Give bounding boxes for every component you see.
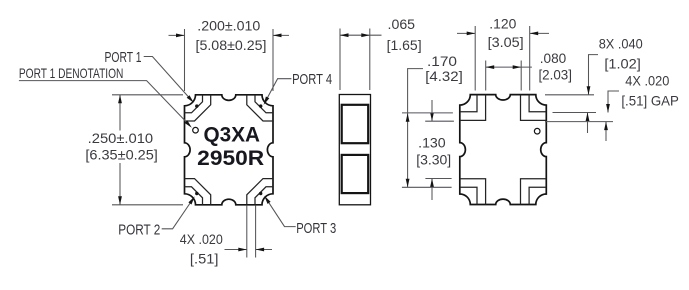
dimension .120 arrows: [457, 32, 549, 34]
svg-text:[6.35±0.25]: [6.35±0.25]: [85, 146, 158, 162]
side view lower metallization band: [342, 155, 369, 193]
svg-text:Q3XA: Q3XA: [204, 124, 261, 147]
dimension .130 arrows: [431, 100, 433, 200]
dimension .200 arrows: [169, 34, 290, 36]
svg-text:[2.03]: [2.03]: [538, 66, 572, 82]
svg-text:PORT 1: PORT 1: [105, 49, 142, 66]
extension line pad top outer (left): [425, 120, 454, 122]
right view top-right corner pad: [521, 95, 547, 121]
svg-text:[5.08±0.25]: [5.08±0.25]: [196, 37, 267, 53]
svg-text:.130: .130: [418, 135, 446, 151]
svg-text:[.51]: [.51]: [190, 250, 219, 266]
svg-text:PORT 4: PORT 4: [292, 71, 332, 88]
dimension 4X .020 arrows: [225, 249, 273, 251]
dimension .080 line with tail and arrows: [486, 66, 532, 68]
svg-text:PORT 3: PORT 3: [296, 220, 336, 237]
PORT 2 leader: [162, 199, 193, 229]
dimension .065 arrows and tail: [340, 34, 382, 36]
dimension .170 leader jog and line: [408, 69, 423, 188]
right view bottom-left corner pad: [460, 179, 486, 205]
svg-text:PORT 2: PORT 2: [118, 222, 160, 239]
svg-text:.200±.010: .200±.010: [197, 17, 260, 33]
port 1 denotation circle: [193, 127, 199, 133]
PORT 1 leader: [144, 57, 192, 101]
dimension 4X .020 GAP leader and arrows: [608, 91, 619, 113]
svg-text:[3.30]: [3.30]: [416, 151, 451, 167]
right view: package bottom-view outline: [460, 95, 547, 205]
svg-text:[.51] GAP: [.51] GAP: [621, 93, 679, 109]
svg-text:PORT 1 DENOTATION: PORT 1 DENOTATION: [19, 65, 124, 81]
svg-text:.120: .120: [489, 15, 516, 31]
extension lines right of right view: [545, 95, 613, 122]
svg-text:2950R: 2950R: [197, 147, 264, 170]
dimension .250 +/- .010 left height, extension lines: [112, 95, 183, 205]
dimension .065 extension lines: [340, 29, 370, 91]
dimension .200 +/- .010 top width, extension lines: [185, 29, 274, 91]
svg-text:[1.65]: [1.65]: [387, 37, 422, 53]
dimension .080 extension lines: [486, 61, 522, 91]
dimension .250 vertical line and arrows: [119, 95, 121, 205]
dimension 4X .020 bottom gap, extension lines: [247, 206, 256, 258]
svg-text:.170: .170: [427, 53, 457, 69]
left view bottom-left corner pad: [185, 179, 211, 205]
svg-text:.065: .065: [388, 16, 416, 32]
svg-text:[1.02]: [1.02]: [604, 55, 641, 71]
left view: package top-view outline: [185, 95, 274, 205]
right view port 1 denotation circle: [534, 128, 540, 134]
left view top-right corner pad: [247, 95, 273, 121]
svg-text:[3.05]: [3.05]: [488, 34, 524, 50]
side view upper metallization band: [342, 105, 369, 143]
PORT 3 leader: [266, 199, 296, 227]
left view bottom-right corner pad: [247, 179, 273, 205]
extension line pad bottom outer (left): [425, 178, 451, 180]
svg-text:[4.32]: [4.32]: [425, 68, 463, 84]
PORT 1 DENOTATION underline and leader: [19, 81, 190, 126]
extension line pad bottom inner (left): [402, 186, 452, 188]
left view top-left corner pad: [185, 95, 211, 121]
svg-text:.250±.010: .250±.010: [88, 130, 154, 146]
right view bottom-right corner pad: [521, 179, 547, 205]
PORT 4 leader: [265, 79, 291, 102]
svg-text:4X .020: 4X .020: [180, 231, 223, 247]
side view: package outline: [339, 95, 370, 205]
svg-text:4X .020: 4X .020: [625, 73, 669, 89]
svg-text:8X .040: 8X .040: [599, 35, 643, 51]
extension line pad top inner (left): [402, 112, 453, 114]
svg-text:.080: .080: [540, 50, 567, 66]
dimension 8X .040 leader and arrows: [589, 55, 599, 95]
right view top-left corner pad: [460, 95, 486, 121]
dimension .120 extension lines: [475, 26, 530, 91]
